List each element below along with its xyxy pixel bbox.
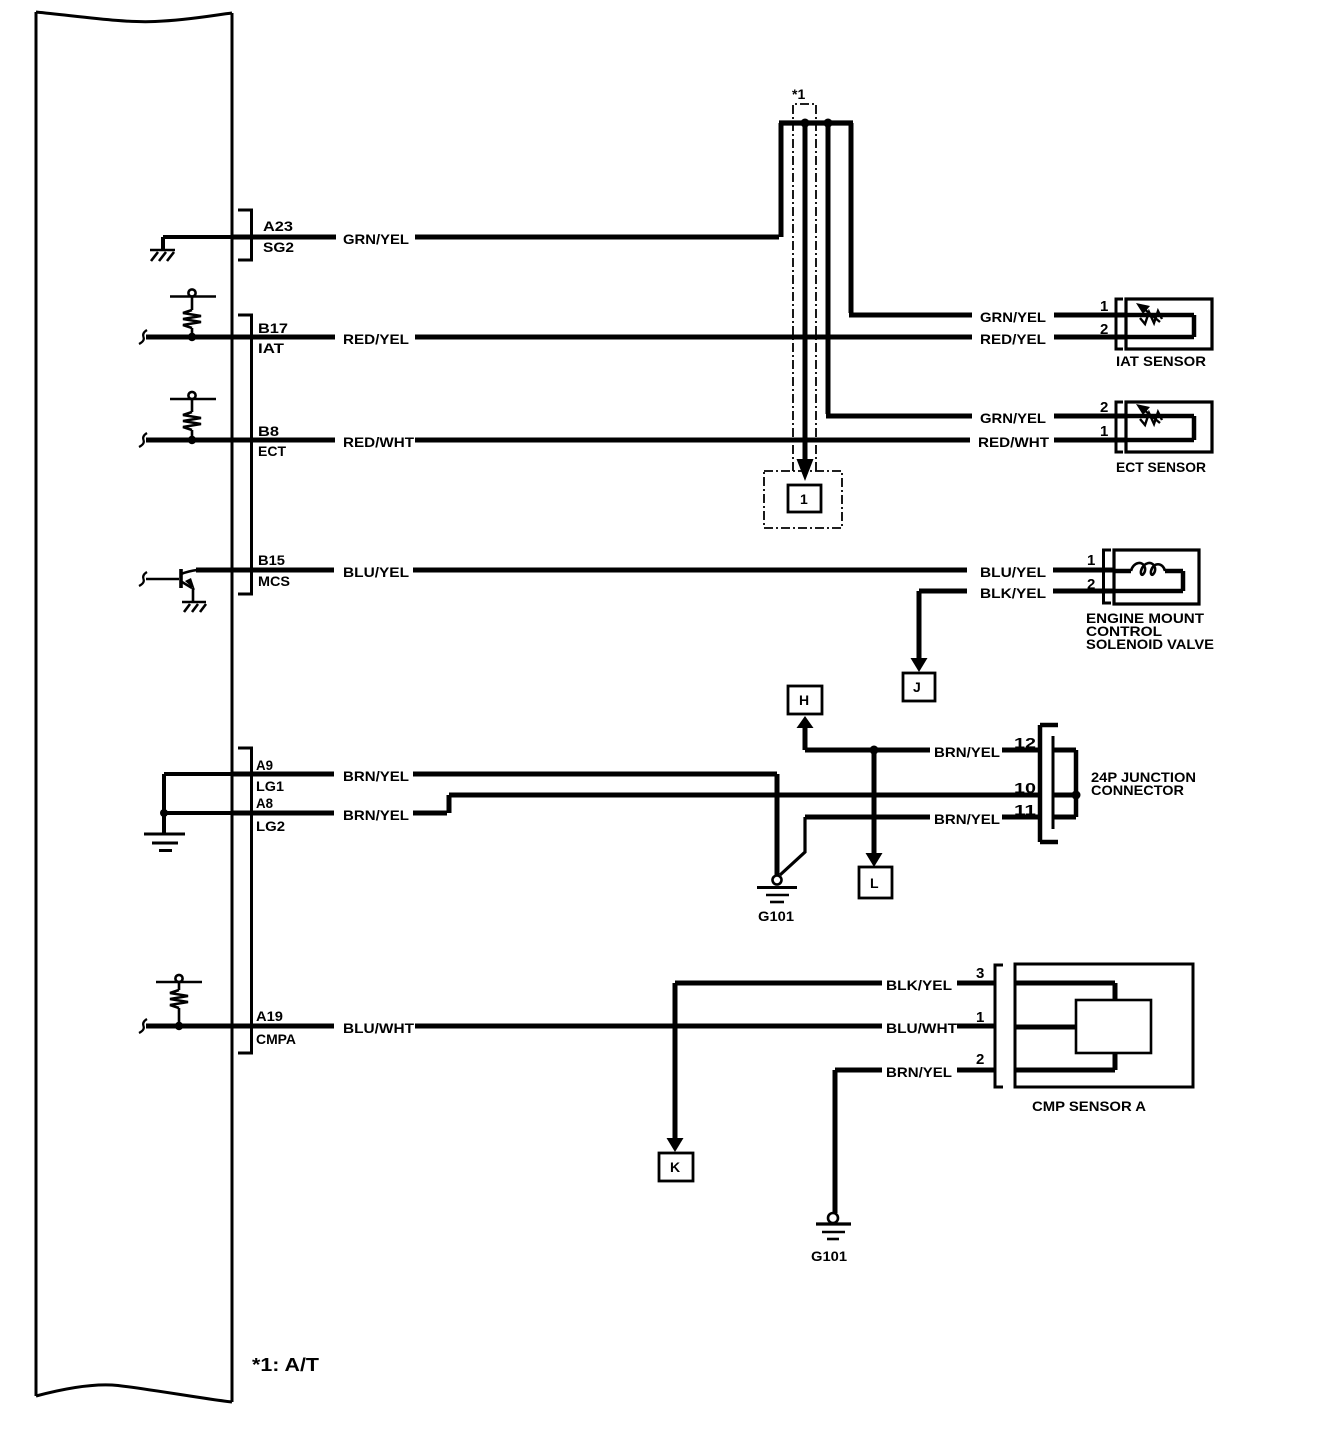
wire A9 drop to G101: [775, 774, 780, 876]
svg-text:CONNECTOR: CONNECTOR: [1091, 782, 1184, 798]
engine mount solenoid connector bracket: [1104, 550, 1112, 603]
24P junction bus: [1074, 750, 1079, 817]
svg-text:G101: G101: [758, 908, 794, 924]
wire arrow to connector 1: [803, 123, 808, 460]
svg-text:A9: A9: [256, 757, 273, 773]
wire A23 GRN/YEL: [232, 235, 779, 240]
svg-text:G101: G101: [811, 1248, 847, 1264]
CMP inner wires: [1015, 983, 1115, 1070]
svg-text:BLK/YEL: BLK/YEL: [980, 585, 1046, 601]
junction dot: [824, 119, 833, 128]
wire A19 BLU/WHT: [146, 1024, 995, 1029]
ECT thermistor element: [1126, 416, 1194, 440]
svg-text:CMPA: CMPA: [256, 1031, 296, 1047]
resistor pull-up B17: [170, 289, 216, 337]
ground G101 upper: [757, 876, 797, 903]
connector bracket A9/A8/A19: [238, 748, 252, 1053]
ground G101 lower: [816, 1213, 851, 1239]
24P junction connector lines: [1040, 725, 1058, 842]
svg-text:*1: *1: [792, 86, 805, 102]
svg-text:K: K: [670, 1159, 680, 1175]
svg-text:SOLENOID VALVE: SOLENOID VALVE: [1086, 636, 1214, 652]
svg-text:2: 2: [1100, 321, 1108, 338]
wire A9 internal: [164, 772, 232, 776]
svg-text:11: 11: [1014, 802, 1036, 819]
wire A23 internal: [163, 237, 232, 249]
wire ground drop internal: [162, 774, 166, 833]
svg-text:3: 3: [976, 965, 984, 982]
svg-text:A23: A23: [263, 218, 293, 234]
junction dot pin10: [1072, 791, 1081, 800]
svg-text:B15: B15: [258, 552, 285, 568]
svg-text:IAT: IAT: [258, 340, 285, 356]
wire riser GRN/YEL: [779, 123, 784, 237]
wire A8 BRN/YEL: [232, 811, 447, 816]
ECT sensor connector bracket: [1116, 402, 1123, 452]
svg-text:ECT SENSOR: ECT SENSOR: [1116, 459, 1206, 475]
in-line connector J: [903, 673, 935, 701]
svg-text:10: 10: [1014, 780, 1036, 797]
wire GRN/YEL branch to IAT: [849, 123, 1126, 315]
CMP sensor box: [1015, 964, 1193, 1087]
svg-text:2: 2: [1100, 399, 1108, 416]
svg-text:GRN/YEL: GRN/YEL: [980, 309, 1046, 325]
wire arrow down to connector L: [872, 750, 877, 854]
connector bracket A23/SG2: [238, 210, 252, 260]
wire top bus: [779, 120, 853, 125]
svg-text:BRN/YEL: BRN/YEL: [934, 744, 1000, 760]
wire BLK/YEL CMP: [675, 981, 995, 986]
wire pin11 drop diagonal: [780, 817, 805, 875]
junction dot: [801, 119, 810, 128]
CMP sensor connector bracket: [995, 965, 1003, 1087]
svg-text:B8: B8: [258, 423, 279, 439]
svg-text:SG2: SG2: [263, 239, 294, 255]
IAT thermistor element: [1126, 315, 1194, 337]
wire-end mark B15: [139, 572, 147, 586]
svg-text:A19: A19: [256, 1008, 283, 1024]
svg-text:BLU/WHT: BLU/WHT: [343, 1020, 414, 1036]
svg-text:1: 1: [1100, 423, 1108, 440]
svg-text:12: 12: [1014, 735, 1036, 752]
wire arrow down to connector K: [673, 983, 678, 1139]
svg-text:2: 2: [976, 1051, 984, 1068]
wire B8 RED/WHT: [146, 438, 1126, 443]
svg-text:H: H: [799, 692, 809, 708]
svg-text:BLK/YEL: BLK/YEL: [886, 977, 952, 993]
svg-text:*1: A/T: *1: A/T: [252, 1355, 319, 1375]
CMP inner element box: [1076, 1000, 1151, 1053]
svg-text:BRN/YEL: BRN/YEL: [934, 811, 1000, 827]
in-line connector H: [788, 686, 822, 714]
svg-text:GRN/YEL: GRN/YEL: [343, 231, 409, 247]
ECM/PCM connector body: [36, 12, 232, 1402]
ground earth internal: [144, 834, 185, 851]
svg-text:RED/YEL: RED/YEL: [980, 331, 1046, 347]
wire GRN/YEL branch to ECT: [826, 123, 1126, 416]
svg-text:BRN/YEL: BRN/YEL: [886, 1064, 952, 1080]
svg-text:ECT: ECT: [258, 443, 286, 459]
svg-text:BLU/YEL: BLU/YEL: [343, 564, 409, 580]
svg-text:1: 1: [1087, 552, 1095, 569]
svg-text:J: J: [913, 679, 921, 695]
ground chassis A23: [150, 250, 175, 261]
svg-text:MCS: MCS: [258, 573, 290, 589]
svg-text:BRN/YEL: BRN/YEL: [343, 807, 409, 823]
svg-text:L: L: [870, 875, 879, 891]
wire B15 BLU/YEL: [196, 568, 1114, 573]
svg-text:GRN/YEL: GRN/YEL: [980, 410, 1046, 426]
svg-text:BRN/YEL: BRN/YEL: [343, 768, 409, 784]
svg-text:1: 1: [800, 491, 808, 507]
wire A8 internal: [164, 811, 232, 815]
wire step up A8: [449, 795, 1076, 813]
junction dot internal ground: [160, 809, 168, 817]
svg-text:BLU/WHT: BLU/WHT: [886, 1020, 957, 1036]
solenoid coil: [1114, 563, 1183, 591]
junction dot H row: [870, 746, 879, 755]
wire drop to connector J: [917, 591, 922, 659]
wire B17 RED/YEL: [146, 335, 1126, 340]
svg-text:LG2: LG2: [256, 818, 285, 834]
dash-dot A/T marker lines: [793, 104, 816, 471]
svg-text:LG1: LG1: [256, 778, 284, 794]
svg-text:B17: B17: [258, 320, 288, 336]
svg-text:1: 1: [976, 1009, 984, 1026]
svg-text:A8: A8: [256, 795, 273, 811]
resistor pull-up B8: [170, 392, 216, 440]
IAT sensor box: [1126, 299, 1212, 349]
svg-text:RED/WHT: RED/WHT: [978, 434, 1049, 450]
resistor pull-up A19: [156, 975, 202, 1026]
wire-end mark B8: [139, 433, 147, 447]
junction dot B8: [188, 436, 196, 444]
junction dot B17: [188, 333, 196, 341]
wire H branch BRN/YEL: [805, 748, 1076, 753]
wire BLK/YEL solenoid: [919, 589, 1114, 594]
wire A9 BRN/YEL: [232, 772, 777, 777]
svg-text:1: 1: [1100, 298, 1108, 315]
svg-text:IAT SENSOR: IAT SENSOR: [1116, 353, 1206, 369]
wire-end mark A19: [139, 1019, 147, 1033]
engine mount solenoid box: [1114, 550, 1199, 604]
IAT sensor connector bracket: [1116, 299, 1123, 349]
svg-text:CMP SENSOR A: CMP SENSOR A: [1032, 1098, 1146, 1114]
in-line connector 1: [788, 485, 821, 512]
wire BRN/YEL CMP: [835, 1068, 995, 1073]
svg-text:BLU/YEL: BLU/YEL: [980, 564, 1046, 580]
svg-text:RED/YEL: RED/YEL: [343, 331, 409, 347]
wire arrow up to connector H: [803, 726, 808, 750]
svg-text:RED/WHT: RED/WHT: [343, 434, 414, 450]
in-line connector K: [659, 1153, 693, 1181]
in-line connector L: [859, 867, 892, 898]
connector bracket B17/B8/B15: [238, 315, 252, 594]
ECT sensor box: [1126, 402, 1212, 452]
wire-end mark B17: [139, 330, 147, 344]
junction dot A19: [175, 1022, 183, 1030]
dash-dot box around connector 1: [764, 471, 842, 528]
wire drop to G101 lower: [833, 1070, 838, 1213]
svg-text:2: 2: [1087, 576, 1095, 593]
transistor Q1 MCS driver: [146, 569, 206, 612]
wire pin11 BRN/YEL: [805, 815, 1076, 820]
